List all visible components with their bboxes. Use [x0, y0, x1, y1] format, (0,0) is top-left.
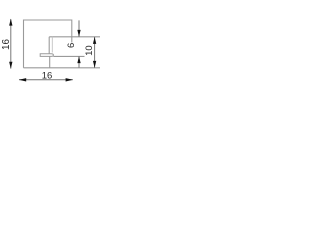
dimension 16 left: line: [10, 19, 12, 68]
dimension 6 right: upper segment with down arrow: [78, 20, 80, 36]
rabbet wall vertical x=52.3 (faint): [51, 37, 53, 53]
dimension 16 bottom: line: [19, 79, 73, 81]
profile outline: right edge upper: [71, 20, 73, 43]
svg-text:16: 16: [1, 39, 12, 50]
spring channel (pill): [40, 54, 53, 57]
dimension 16 left: bottom arrow: [9, 62, 12, 69]
rabbet floor line y=36.8 with extension to right: [49, 36, 100, 38]
dimension 6 right: lower segment with up arrow: [78, 56, 80, 67]
dimension 16 left: top arrow: [9, 19, 12, 26]
svg-text:16: 16: [42, 70, 53, 81]
dimension 10: bottom arrow (down): [93, 61, 96, 68]
background: [0, 0, 100, 100]
lower wall vertical below channel: [49, 56, 51, 67]
dimension 16 bottom: left arrow: [19, 78, 26, 81]
dimension 10 far right: line: [94, 37, 96, 68]
profile outline: top edge: [24, 19, 72, 21]
profile outline: left edge: [23, 20, 25, 68]
svg-text:6: 6: [66, 43, 77, 48]
bottom edge y=67.8 with extension to right: [24, 67, 101, 69]
dimension 16 bottom: right arrow: [66, 78, 73, 81]
channel bottom line extension y=56.4: [53, 55, 84, 57]
rabbet wall vertical x=49.2: [48, 37, 50, 54]
dimension 10: top arrow (up): [93, 37, 96, 44]
svg-text:10: 10: [84, 45, 95, 56]
